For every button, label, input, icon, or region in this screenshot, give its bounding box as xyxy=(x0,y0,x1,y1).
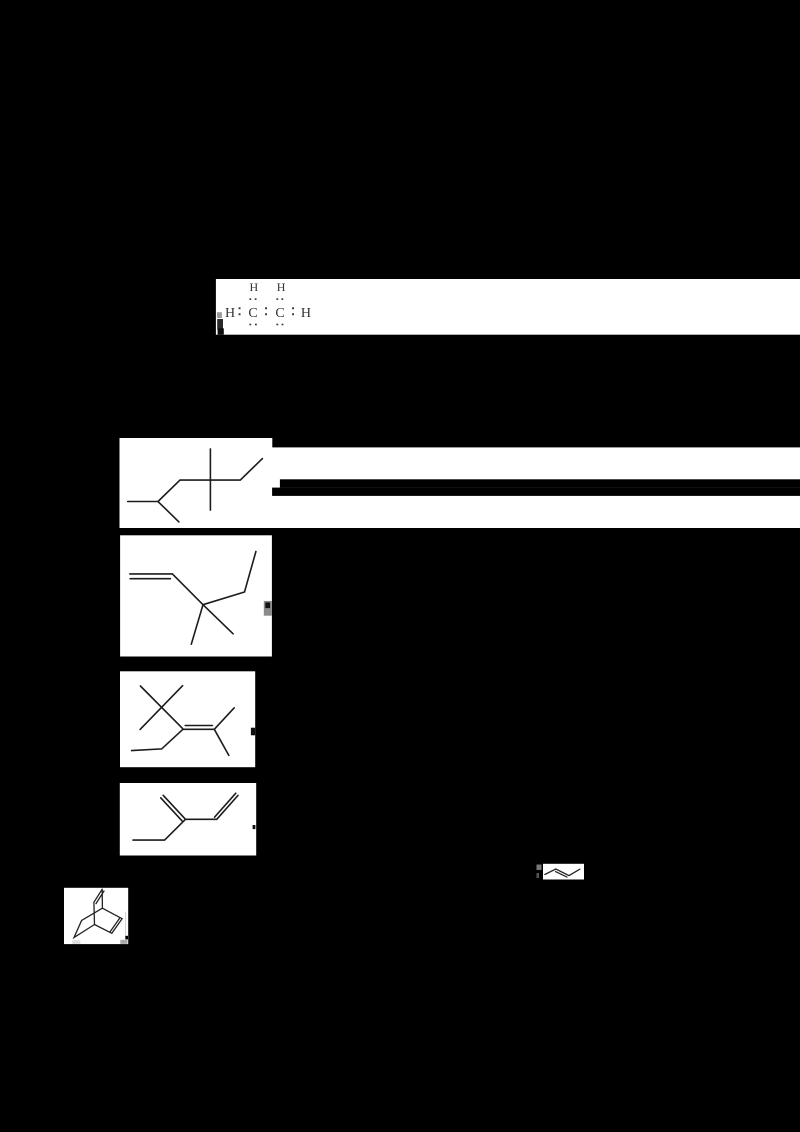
svg-text:H: H xyxy=(249,280,258,294)
svg-text:C: C xyxy=(275,306,284,321)
svg-text:H: H xyxy=(277,280,286,294)
svg-text:H: H xyxy=(225,306,235,321)
svg-text:H: H xyxy=(301,306,311,321)
svg-text:C: C xyxy=(248,306,257,321)
